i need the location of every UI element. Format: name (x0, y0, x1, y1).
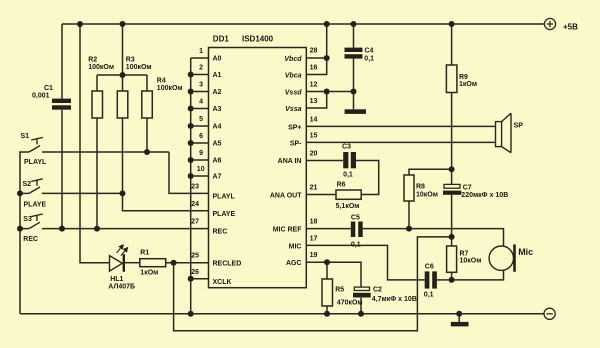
svg-text:S1: S1 (21, 133, 30, 140)
wire address ladder bus (190, 58, 192, 314)
svg-text:0,1: 0,1 (343, 172, 353, 179)
wire C4 bottom to ground (353, 59, 355, 110)
resistor R7 (447, 246, 457, 272)
svg-text:21: 21 (310, 185, 318, 192)
junction left rail S2 (17, 190, 23, 196)
svg-text:A7: A7 (213, 174, 222, 181)
svg-text:26: 26 (191, 269, 199, 276)
junction left rail S3 (17, 226, 23, 232)
svg-text:100кОм: 100кОм (126, 64, 152, 71)
svg-text:HL1: HL1 (110, 276, 123, 283)
switch S1 (29, 137, 43, 152)
wire R4 bottom lead to PLAYL node (146, 118, 148, 152)
svg-text:RECLED: RECLED (213, 261, 242, 268)
wire C1 top lead from rail corner down (61, 24, 63, 99)
capacitor C3 (343, 152, 356, 168)
svg-text:5,1кОм: 5,1кОм (336, 203, 360, 210)
junction ladder A7 (188, 173, 194, 179)
svg-text:Vbcd: Vbcd (284, 56, 302, 63)
junction ladder A2 (188, 89, 194, 95)
svg-text:17: 17 (310, 235, 318, 242)
svg-text:A2: A2 (213, 89, 222, 96)
wire S1 pivot stub (19, 151, 29, 153)
svg-text:3: 3 (199, 82, 203, 89)
wire R9 bottom to C7 top (451, 93, 453, 185)
svg-text:1кОм: 1кОм (140, 270, 158, 277)
svg-text:0,001: 0,001 (32, 93, 50, 100)
wire pin 10 A7 stub (191, 175, 209, 177)
junction ground symbol bus (456, 311, 462, 317)
svg-text:PLAYL: PLAYL (213, 193, 236, 200)
wire pin 4 A3 stub (191, 108, 209, 110)
svg-text:20: 20 (310, 151, 318, 158)
wire C5 to mic top corner (363, 229, 504, 246)
wire LED cathode to R1 (125, 262, 140, 264)
svg-text:R4: R4 (157, 78, 166, 85)
junction x=122.5 top rail (120, 21, 126, 27)
svg-text:15: 15 (310, 132, 318, 139)
junction ladder A5 (188, 140, 194, 146)
svg-text:28: 28 (310, 48, 318, 55)
wire pin 15 SP- to speaker (306, 141, 495, 143)
svg-text:+5В: +5В (563, 23, 578, 32)
svg-text:5: 5 (199, 116, 203, 123)
junction R3 top bus (120, 72, 126, 78)
wire S3 pivot stub (20, 228, 29, 230)
wire R2 bottom lead to REC node (96, 118, 98, 229)
svg-text:C5: C5 (351, 215, 360, 222)
svg-text:Vbca: Vbca (285, 73, 302, 80)
svg-text:220мкФ x 10В: 220мкФ x 10В (461, 192, 508, 199)
capacitor C7 polarized (443, 184, 461, 194)
resistor R3 (117, 91, 128, 118)
op-amp chip DD1 body (209, 48, 307, 288)
svg-text:MIC REF: MIC REF (273, 227, 303, 234)
capacitor C2 polarized (353, 287, 371, 297)
svg-text:16: 16 (310, 65, 318, 72)
wire pin 19 AGC to C2 drop (306, 262, 361, 287)
svg-text:24: 24 (191, 201, 199, 208)
svg-text:14: 14 (310, 116, 318, 123)
capacitor C5 (351, 222, 363, 238)
wire PLAYL jog down and into pin 23 (169, 152, 209, 193)
svg-text:A3: A3 (213, 106, 222, 113)
svg-text:0,1: 0,1 (364, 56, 374, 63)
svg-text:18: 18 (310, 219, 318, 226)
svg-text:C3: C3 (342, 144, 351, 151)
svg-text:C6: C6 (425, 263, 434, 270)
svg-text:R3: R3 (126, 57, 135, 64)
wire rail drop to pin 28 (326, 24, 328, 58)
svg-text:C7: C7 (463, 184, 472, 191)
svg-text:13: 13 (310, 98, 318, 105)
junction R5 AGC (324, 259, 330, 265)
speaker SP (496, 113, 512, 153)
ground lower right (451, 322, 469, 327)
wire S1 output PLAYL to jog (42, 151, 169, 153)
wire pin 12 stub (306, 91, 326, 93)
wire R7 bottom node to mic bottom (452, 271, 504, 280)
svg-text:PLAYL: PLAYL (24, 159, 47, 166)
svg-text:0,1: 0,1 (424, 292, 434, 299)
svg-text:27: 27 (191, 219, 199, 226)
svg-text:SP-: SP- (290, 140, 302, 147)
svg-text:ISD1400: ISD1400 (242, 35, 274, 44)
svg-text:Mic: Mic (518, 247, 533, 257)
junction R7 top node (449, 234, 455, 240)
wire R5 top lead (326, 262, 328, 279)
svg-text:470кОм: 470кОм (337, 300, 363, 307)
junction R5 ground bus (324, 311, 330, 317)
wire R2 top lead (96, 75, 98, 91)
junction R3 PLAYE (120, 190, 126, 196)
svg-text:19: 19 (310, 252, 318, 259)
wire +5V branch x=80 down to LED anode (80, 24, 110, 263)
resistor R8 (404, 175, 414, 201)
LED HL1 (110, 245, 128, 272)
svg-text:R5: R5 (335, 286, 344, 293)
svg-text:4: 4 (199, 99, 203, 106)
junction C2 ground bus (358, 311, 364, 317)
wire C1 bottom lead down to REC node (61, 110, 63, 229)
svg-text:25: 25 (191, 253, 199, 260)
svg-text:S2: S2 (23, 181, 32, 188)
junction R8 elbow R9 column (449, 166, 455, 172)
junction R4 PLAYL (144, 149, 150, 155)
wire pin 20 ANA IN to C3 (306, 160, 343, 162)
svg-text:REC: REC (213, 229, 228, 236)
wire +5V top rail (62, 23, 545, 25)
wire RECLED branch down and right to mic bias column (174, 237, 452, 331)
junction R8 MIC REF (406, 226, 412, 232)
switch S2 (29, 179, 43, 194)
wire pin 28 stub (306, 57, 326, 59)
svg-text:23: 23 (191, 183, 199, 190)
wire pin 21 ANA OUT to R6 (306, 194, 336, 196)
svg-text:C1: C1 (44, 85, 53, 92)
wire C3 to R6 right loop (356, 161, 379, 195)
svg-text:Vssd: Vssd (285, 90, 302, 97)
svg-text:R1: R1 (140, 250, 149, 257)
wire R7 bottom lead (451, 272, 453, 280)
junction RECLED branch (171, 260, 177, 266)
svg-text:SP: SP (514, 123, 524, 130)
junction ladder A3 (188, 106, 194, 112)
junction C4 column 12/13 (351, 89, 357, 95)
svg-text:A6: A6 (213, 158, 222, 165)
svg-text:12: 12 (310, 82, 318, 89)
wire pin 18 MIC REF to C5 (306, 228, 351, 230)
junction ladder ground bus (188, 311, 194, 317)
svg-text:100кОм: 100кОм (157, 85, 183, 92)
wire S2 pivot stub (20, 192, 29, 194)
resistor R1 (140, 259, 166, 267)
resistor R2 (92, 91, 103, 118)
capacitor C4 (345, 48, 363, 59)
junction ladder A6 (188, 157, 194, 163)
svg-text:REC: REC (23, 236, 38, 243)
wire pin 26 XCLK stub (191, 278, 209, 280)
wire pin 6 A5 stub (191, 142, 209, 144)
svg-text:10: 10 (197, 166, 205, 173)
wire PLAYE jog down and into pin 24 (123, 193, 209, 210)
wire S3 output REC into pin 27 (42, 228, 209, 230)
wire C2 bottom lead (360, 298, 362, 314)
svg-text:Vssa: Vssa (285, 106, 301, 113)
wire R3 top lead (122, 75, 124, 91)
svg-text:0,1: 0,1 (351, 242, 361, 249)
wire S2 output PLAYE (42, 192, 123, 194)
svg-text:6: 6 (199, 133, 203, 140)
microphone Mic (489, 244, 516, 271)
wire rail drop to R-bus at x=122.5 (122, 24, 124, 75)
junction ladder A1 (188, 72, 194, 78)
junction R2 REC (94, 226, 100, 232)
wire R3 bottom lead to PLAYE node (122, 118, 124, 193)
junction ladder A4 (188, 123, 194, 129)
svg-text:100кОм: 100кОм (88, 64, 114, 71)
svg-text:C4: C4 (365, 47, 374, 54)
wire ground bottom bus (20, 313, 545, 315)
svg-text:MIC: MIC (289, 243, 302, 250)
svg-text:S3: S3 (23, 216, 32, 223)
capacitor C1 (52, 99, 71, 110)
wire left rail switch common (19, 152, 21, 314)
svg-text:SP+: SP+ (288, 124, 301, 131)
terminal minus (544, 308, 555, 319)
junction ladder XCLK (188, 276, 194, 282)
wire R8 bottom to MIC REF node (408, 201, 410, 229)
svg-text:R9: R9 (459, 74, 468, 81)
wire pin 14 SP+ to speaker (306, 125, 495, 127)
svg-text:1кОм: 1кОм (459, 81, 477, 88)
svg-text:C2: C2 (373, 287, 382, 294)
junction x=451.6 top rail (449, 21, 455, 27)
svg-text:9: 9 (199, 150, 203, 157)
terminal +5V (544, 18, 555, 29)
svg-text:АЛ407Б: АЛ407Б (108, 283, 135, 290)
wire pin 9 A6 stub (191, 159, 209, 161)
wire ground symbol stub lower (458, 314, 460, 322)
wire pins 12-13 tie (306, 92, 326, 109)
junction C1 REC (59, 226, 65, 232)
wire R2 R3 R4 top bus (97, 74, 147, 76)
junction pin 28 tie (324, 55, 330, 61)
wire rail drop to R9 (451, 24, 453, 65)
junction x=354.5 top rail (351, 21, 357, 27)
resistor R6 (336, 190, 361, 199)
wire R8 elbow from R9 column (409, 169, 452, 175)
svg-text:10кОм: 10кОм (460, 258, 482, 265)
svg-text:AGC: AGC (286, 260, 302, 267)
wire pin 2 A1 stub (191, 74, 209, 76)
svg-text:R6: R6 (337, 181, 346, 188)
svg-text:A0: A0 (213, 56, 222, 63)
resistor R5 (322, 279, 333, 306)
svg-text:2: 2 (199, 65, 203, 72)
wire pin 1 A0 stub (191, 57, 209, 59)
junction x=80 top rail (77, 21, 83, 27)
switch S3 (29, 214, 43, 229)
svg-text:ANA IN: ANA IN (278, 158, 302, 165)
junction x=326.7 top rail (324, 21, 330, 27)
svg-text:R7: R7 (460, 250, 469, 257)
svg-text:XCLK: XCLK (213, 279, 232, 286)
svg-text:A4: A4 (213, 124, 222, 131)
resistor R4 (142, 91, 153, 118)
svg-text:PLAYE: PLAYE (24, 201, 47, 208)
wire 12/13 node to C4 column (327, 91, 354, 93)
svg-text:A5: A5 (213, 141, 222, 148)
svg-text:R2: R2 (88, 57, 97, 64)
wire rail drop to C4 (353, 24, 355, 48)
svg-text:A1: A1 (213, 72, 222, 79)
capacitor C6 (425, 271, 437, 288)
wire pin 17 MIC to C6 (306, 245, 424, 280)
svg-text:R8: R8 (416, 184, 425, 191)
wire C6 right to R7 bottom node (437, 279, 452, 281)
wire pin 5 A4 stub (191, 125, 209, 127)
wire C7 bottom to R7 top (451, 195, 453, 246)
svg-text:1: 1 (199, 48, 203, 55)
svg-text:10кОм: 10кОм (416, 192, 438, 199)
wire R4 top lead (146, 75, 148, 91)
wire R1 to pin 25 RECLED (166, 262, 209, 264)
ground under C4 (345, 109, 366, 114)
junction pin 12 tie (324, 89, 330, 95)
svg-text:PLAYE: PLAYE (213, 211, 236, 218)
svg-text:4,7мкФ x 10В: 4,7мкФ x 10В (372, 296, 417, 303)
wire R5 bottom lead (326, 306, 328, 314)
wire pins 28-16 tie (306, 58, 326, 75)
wire pin 3 A2 stub (191, 91, 209, 93)
svg-text:DD1: DD1 (213, 35, 230, 44)
resistor R9 (446, 65, 457, 93)
svg-text:ANA OUT: ANA OUT (270, 193, 302, 200)
junction R7 bottom node (449, 277, 455, 283)
